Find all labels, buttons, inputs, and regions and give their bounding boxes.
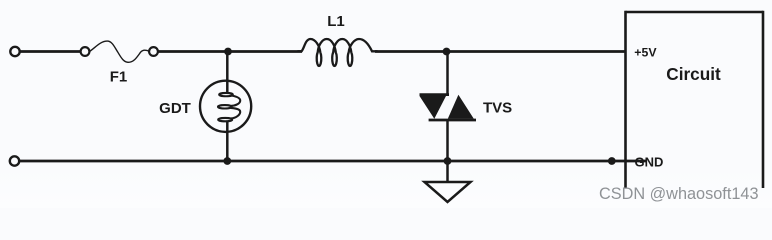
wire terminal to fuse (20, 50, 81, 53)
terminal input bottom-left (10, 156, 19, 165)
wire junction to TVS (446, 52, 449, 97)
ground (425, 182, 471, 202)
svg-text:+5V: +5V (634, 46, 657, 60)
svg-text:GDT: GDT (159, 100, 191, 117)
fuse F1 (81, 41, 158, 62)
svg-text:Circuit: Circuit (666, 64, 721, 84)
wire TVS junction to ground (446, 161, 449, 182)
circuit box (626, 11, 764, 188)
junction node GND at box (608, 157, 616, 165)
svg-text:GND: GND (635, 155, 664, 170)
junction node GDT bottom (223, 157, 231, 165)
wire TVS to bottom (446, 119, 449, 161)
wire bottom rail (19, 160, 647, 163)
junction node TVS bottom (444, 157, 452, 165)
svg-text:TVS: TVS (483, 100, 512, 117)
wire inductor to circuit box (375, 50, 626, 53)
inductor L1 (298, 39, 377, 66)
wire fuse to inductor (158, 50, 302, 53)
svg-text:CSDN @whaosoft143: CSDN @whaosoft143 (599, 185, 759, 203)
junction node at GDT top (224, 48, 232, 56)
svg-text:F1: F1 (110, 69, 128, 86)
terminal input top-left (10, 47, 19, 56)
TVS diode (420, 95, 477, 120)
svg-text:L1: L1 (327, 13, 345, 30)
GDT gas discharge tube (200, 81, 251, 132)
wire GDT to bottom (226, 121, 229, 162)
wire junction to GDT (226, 52, 229, 95)
junction node at TVS top (443, 48, 451, 56)
